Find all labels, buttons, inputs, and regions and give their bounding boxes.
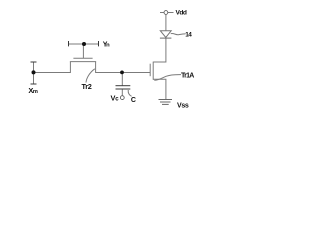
svg-text:C: C [131,97,136,104]
svg-text:m: m [33,89,38,95]
svg-text:Vss: Vss [177,103,189,110]
svg-text:Tr1A: Tr1A [181,73,194,80]
svg-text:4: 4 [188,32,192,39]
svg-text:Vdd: Vdd [176,9,187,16]
svg-text:n: n [106,42,110,48]
svg-text:Tr2: Tr2 [82,82,92,91]
